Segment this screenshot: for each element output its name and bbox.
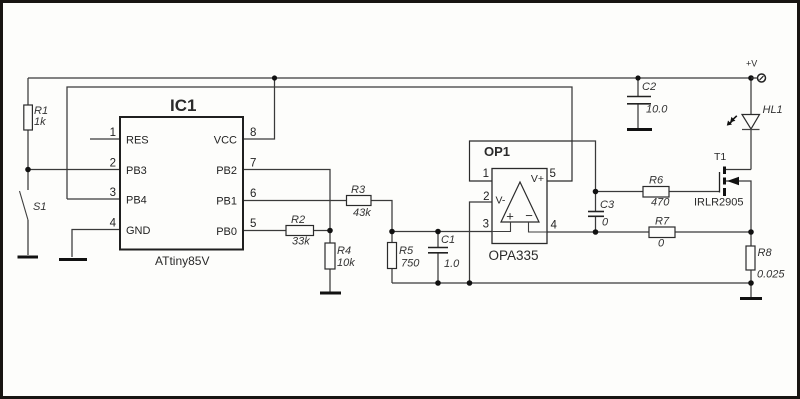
svg-text:R8: R8 — [758, 247, 773, 259]
node D (R6/C3) — [593, 189, 599, 195]
node C2 tap on rail — [635, 75, 640, 80]
svg-text:PB4: PB4 — [126, 195, 147, 207]
op-amp U2 inner body OPA335 — [488, 169, 547, 264]
svg-text:OP1: OP1 — [484, 144, 510, 159]
wire pin3 PB4 stub — [67, 198, 120, 200]
wire pin7 PB2 to node B — [243, 170, 330, 231]
wire C1 top — [437, 232, 439, 248]
wire pin4 GND to ground — [72, 230, 120, 258]
resistor R7 — [649, 216, 675, 250]
node E (R7/T1 source/R8) — [748, 229, 754, 235]
node C3 bottom — [593, 229, 599, 235]
node C1 bottom rail — [435, 280, 441, 286]
svg-text:3: 3 — [110, 187, 116, 199]
wire PB4 supply rail (second top wire) — [67, 87, 572, 199]
node VCC tap on rail — [272, 75, 277, 80]
svg-text:C1: C1 — [441, 234, 455, 246]
wire R7 to node E — [675, 231, 751, 233]
svg-text:V-: V- — [496, 195, 506, 207]
svg-text:−: − — [525, 208, 533, 223]
svg-text:IC1: IC1 — [170, 96, 196, 115]
wire R3 to node C — [371, 201, 392, 232]
svg-text:2: 2 — [483, 191, 489, 203]
svg-text:R4: R4 — [337, 245, 351, 257]
resistor R5 — [388, 243, 421, 270]
resistor R6 — [643, 175, 670, 209]
svg-text:S1: S1 — [33, 201, 46, 213]
wire S1 to ground — [27, 220, 29, 255]
wire node B to R4 — [329, 231, 331, 244]
svg-text:R3: R3 — [351, 184, 366, 196]
svg-text:3: 3 — [483, 219, 489, 231]
wire op-amp pin4 output to R7 — [547, 231, 649, 233]
wire node C to op-amp pin3 — [392, 231, 492, 233]
op-amp U2 OP1 outer box — [470, 141, 573, 181]
node A (R1/S1/PB3) — [25, 167, 31, 173]
capacitor C3 — [588, 199, 615, 229]
wire node D to R6 — [596, 191, 644, 193]
svg-text:R7: R7 — [655, 216, 670, 228]
wire R6 to T1 gate — [669, 191, 720, 193]
svg-text:470: 470 — [651, 197, 670, 209]
svg-text:43k: 43k — [353, 207, 371, 219]
wire bottom sense rail — [392, 282, 751, 284]
svg-text:4: 4 — [551, 220, 558, 232]
svg-text:OPA335: OPA335 — [488, 248, 538, 263]
wire pin6 PB1 to R3 — [243, 200, 347, 202]
svg-text:PB3: PB3 — [126, 165, 147, 177]
svg-text:V+: V+ — [531, 173, 544, 185]
wire R8 to bottom rail node — [750, 270, 752, 283]
op-amp + input hook to pin 3 — [492, 222, 511, 232]
resistor R3 — [347, 184, 372, 219]
svg-text:0.025: 0.025 — [757, 269, 785, 281]
wire T1 drain — [726, 169, 751, 171]
wire bottom rail node to ground — [750, 283, 752, 297]
resistor R2 — [286, 214, 314, 248]
svg-text:VCC: VCC — [214, 135, 237, 147]
svg-text:PB1: PB1 — [216, 196, 237, 208]
capacitor C2 — [627, 81, 668, 116]
wire T1 source to node E — [726, 181, 751, 232]
wire C2 bottom to ground — [637, 104, 639, 128]
node C (R3/R5/C1 wire) — [389, 229, 395, 235]
svg-text:10.0: 10.0 — [646, 104, 668, 116]
svg-text:RES: RES — [126, 135, 149, 147]
wire R1 top to rail — [27, 78, 29, 105]
svg-text:1k: 1k — [34, 116, 46, 128]
ground for IC1 GND pin — [59, 258, 87, 261]
ground under R4 — [320, 292, 341, 295]
op-amp triangle — [501, 182, 539, 222]
wire node A to switch S1 — [27, 170, 29, 191]
node pin2 bottom rail — [467, 280, 473, 286]
svg-text:5: 5 — [250, 218, 256, 230]
switch S1 — [20, 191, 47, 220]
svg-text:R2: R2 — [291, 214, 305, 226]
LED HL1 — [727, 104, 783, 130]
wire pin8 VCC to top rail — [243, 78, 275, 139]
wire R5 to bottom rail — [391, 269, 393, 284]
svg-text:C3: C3 — [600, 199, 615, 211]
wire C3 bottom — [595, 217, 597, 233]
wire node E to R8 — [750, 232, 752, 246]
+V supply terminal — [746, 59, 766, 83]
HL1 cathode bar — [742, 129, 760, 131]
T1 source arrow — [727, 177, 739, 185]
svg-text:+: + — [506, 209, 514, 224]
HL1 emission arrows — [733, 116, 737, 119]
wire op-amp pin2 to bottom rail — [470, 202, 493, 283]
wire OP1 supply corner to node D — [572, 141, 596, 192]
ground under R8 — [740, 297, 762, 300]
node B (R2/R4/PB2) — [327, 228, 333, 234]
svg-text:4: 4 — [110, 218, 117, 230]
svg-text:1.0: 1.0 — [444, 258, 460, 270]
svg-text:R5: R5 — [399, 245, 414, 257]
svg-text:0: 0 — [658, 238, 665, 250]
resistor R1 — [24, 105, 48, 130]
wire pin1 RES stub — [90, 138, 120, 140]
wire R4 to ground — [329, 269, 331, 292]
svg-text:10k: 10k — [337, 257, 355, 269]
ground under C2 — [627, 128, 652, 131]
wire C3 top — [595, 192, 597, 212]
wire C1 bottom — [437, 253, 439, 283]
svg-text:1: 1 — [483, 168, 489, 180]
svg-text:33k: 33k — [292, 236, 310, 248]
svg-text:IRLR2905: IRLR2905 — [694, 197, 744, 209]
svg-text:+V: +V — [746, 59, 757, 69]
resistor R4 — [325, 243, 355, 269]
svg-text:8: 8 — [250, 127, 256, 139]
IC U1 ATtiny85V box — [120, 96, 243, 268]
capacitor C1 — [428, 234, 460, 270]
svg-text:2: 2 — [110, 158, 116, 170]
svg-text:0: 0 — [602, 217, 609, 229]
node HL1 tap on rail — [748, 75, 754, 81]
svg-text:C2: C2 — [642, 81, 656, 93]
svg-text:HL1: HL1 — [763, 104, 783, 116]
svg-text:R6: R6 — [649, 175, 664, 187]
transistor T1 IRLR2905 — [694, 151, 744, 209]
op-amp - output hook to pin 4 — [529, 222, 548, 232]
node R8 bottom rail — [748, 280, 754, 286]
T1 gate bar — [719, 172, 721, 193]
svg-text:GND: GND — [126, 225, 151, 237]
svg-text:7: 7 — [250, 158, 256, 170]
wire top rail to HL1 anode — [750, 78, 752, 115]
wire pin5 PB0 to R2 — [243, 230, 286, 232]
svg-text:5: 5 — [550, 168, 556, 180]
ground under S1 — [18, 256, 39, 259]
svg-text:6: 6 — [250, 188, 256, 200]
svg-text:PB0: PB0 — [216, 226, 237, 238]
svg-text:ATtiny85V: ATtiny85V — [155, 254, 209, 268]
T1 channel bar segments — [723, 167, 726, 175]
wire HL1 cathode to T1 drain — [750, 130, 752, 170]
resistor R8 — [746, 246, 785, 281]
wire R2 to node B — [314, 230, 331, 232]
svg-text:PB2: PB2 — [216, 165, 237, 177]
wire node C to R5 — [391, 232, 393, 243]
wire V+ top rail — [28, 77, 757, 79]
svg-text:1: 1 — [110, 127, 116, 139]
wire C2 top — [637, 78, 639, 96]
node C1 top — [435, 229, 441, 235]
svg-text:T1: T1 — [714, 151, 726, 163]
wire R1 bottom to node A — [27, 130, 29, 170]
svg-text:750: 750 — [401, 258, 420, 270]
wire node A to pin2 PB3 — [28, 169, 120, 171]
